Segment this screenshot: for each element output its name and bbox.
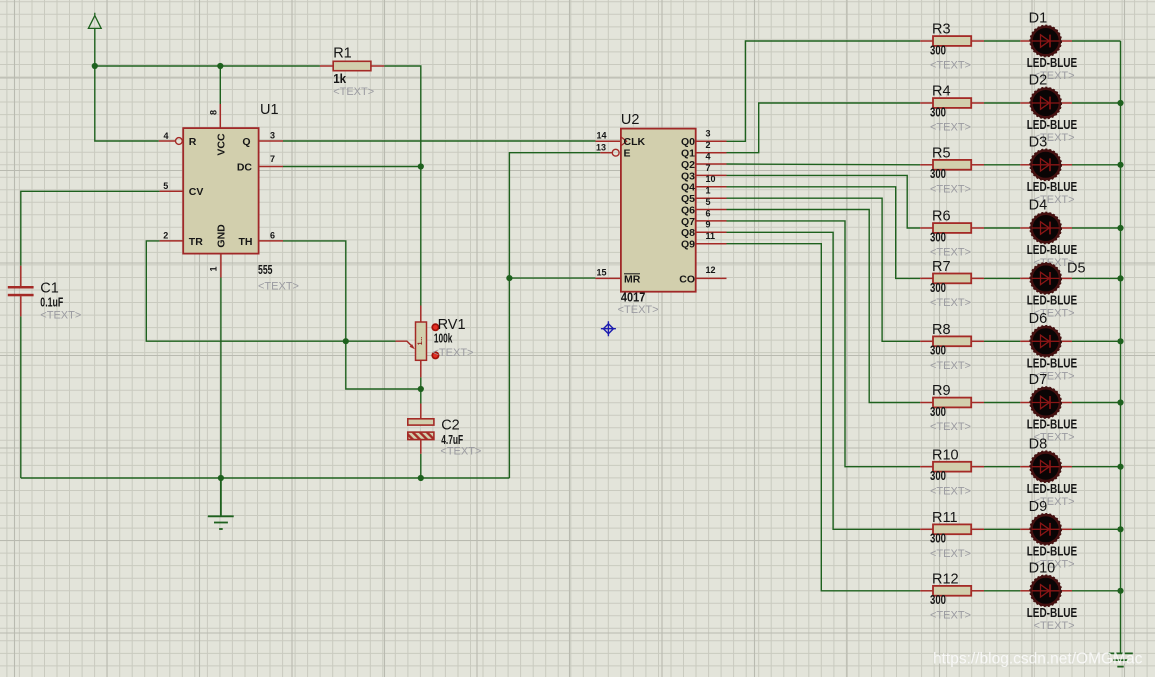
node rail junction D4 xyxy=(1117,225,1123,231)
svg-text:12: 12 xyxy=(706,265,716,275)
U1 pin numbers xyxy=(163,110,275,272)
LED D7 cathode stub xyxy=(1060,402,1072,404)
svg-text:<TEXT>: <TEXT> xyxy=(618,304,659,316)
svg-text:GND: GND xyxy=(215,224,227,248)
resistor R11 left stub xyxy=(920,528,933,530)
svg-text:<TEXT>: <TEXT> xyxy=(930,548,971,560)
svg-text:<TEXT>: <TEXT> xyxy=(40,310,81,322)
svg-text:5: 5 xyxy=(706,197,711,207)
wire Q6 to R9 xyxy=(727,210,921,403)
svg-text:Q4: Q4 xyxy=(681,182,695,194)
svg-text:CLK: CLK xyxy=(624,136,646,148)
node RV1 bottom junction xyxy=(418,386,424,392)
svg-text:D6: D6 xyxy=(1029,311,1048,327)
svg-text:LED-BLUE: LED-BLUE xyxy=(1027,418,1078,432)
resistor R10 left stub xyxy=(920,466,933,468)
svg-text:<TEXT>: <TEXT> xyxy=(930,60,971,72)
resistor R8 body xyxy=(933,336,971,346)
svg-text:Q3: Q3 xyxy=(681,170,695,182)
U1 pin 7 stub xyxy=(259,166,283,168)
svg-text:U2: U2 xyxy=(621,112,640,128)
node DC node junction xyxy=(418,163,424,169)
resistor R12 left stub xyxy=(920,590,933,592)
wire U2 E and MR to ground rail xyxy=(509,153,600,478)
capacitor C2 bottom lead xyxy=(420,440,422,454)
wire D2 cathode to rail xyxy=(1072,102,1121,104)
svg-text:300: 300 xyxy=(930,593,946,607)
svg-text:D1: D1 xyxy=(1029,11,1048,27)
capacitor C2 top plate xyxy=(408,419,434,425)
LED D1 cathode stub xyxy=(1060,40,1072,42)
svg-text:CO: CO xyxy=(679,273,695,285)
svg-text:Q8: Q8 xyxy=(681,227,695,239)
svg-text:<TEXT>: <TEXT> xyxy=(433,347,474,359)
LED D5 anode stub xyxy=(1020,277,1031,279)
LED D9 cathode stub xyxy=(1060,528,1072,530)
svg-text:Q2: Q2 xyxy=(681,159,695,171)
svg-text:Q7: Q7 xyxy=(681,216,695,228)
svg-text:LED-BLUE: LED-BLUE xyxy=(1027,243,1078,257)
wire Q3 to R6 xyxy=(727,175,921,228)
svg-text:7: 7 xyxy=(270,154,275,164)
LED D2 anode stub xyxy=(1020,102,1031,104)
resistor R11 body xyxy=(933,524,971,534)
LED D8 cathode stub xyxy=(1060,466,1072,468)
U2 E pin bubble xyxy=(612,149,619,156)
U1 pin 8 stub xyxy=(219,104,221,128)
capacitor C1 bottom lead xyxy=(20,296,22,316)
wire U1 TR loop xyxy=(146,241,345,341)
capacitor C2 bottom plate hatched xyxy=(408,432,434,440)
U1 pin 4 bubble xyxy=(176,138,183,145)
wire D7 cathode to rail xyxy=(1072,402,1121,404)
node VCC-reset junction xyxy=(92,63,98,69)
svg-text:10: 10 xyxy=(706,174,716,184)
U2 E pin 13 stub xyxy=(600,152,612,154)
svg-text:2: 2 xyxy=(163,231,168,241)
U1 pin labels inside xyxy=(189,133,253,248)
svg-text:<TEXT>: <TEXT> xyxy=(1034,620,1075,632)
resistor R7 right stub xyxy=(971,277,984,279)
svg-text:E: E xyxy=(624,148,631,160)
wire D1 cathode to rail xyxy=(1072,40,1121,42)
U2 CLK chevron xyxy=(621,137,627,146)
resistor R5 right stub xyxy=(971,164,984,166)
svg-text:R7: R7 xyxy=(932,259,951,275)
wire Q4 to R7 xyxy=(727,187,921,279)
potentiometer RV1 top lead xyxy=(420,306,422,323)
svg-text:1...: 1... xyxy=(418,337,424,346)
svg-text:C1: C1 xyxy=(40,281,59,297)
LED D4 anode stub xyxy=(1020,227,1031,229)
node U1 GND ground junction xyxy=(218,475,224,481)
potentiometer RV1 bottom lead xyxy=(420,360,422,377)
resistor R4 right stub xyxy=(971,102,984,104)
svg-text:R1: R1 xyxy=(333,46,352,62)
wire R6 to D4 xyxy=(984,227,1020,229)
svg-text:7: 7 xyxy=(706,163,711,173)
svg-text:D4: D4 xyxy=(1029,198,1048,214)
LED D4 cathode stub xyxy=(1060,227,1072,229)
svg-text:300: 300 xyxy=(930,43,946,57)
U2 Q8 pin stub xyxy=(696,231,727,233)
wire R3 to D1 xyxy=(984,40,1020,42)
U1 pin 3 stub xyxy=(259,140,283,142)
wire VCC drop to U1 pin 8 xyxy=(219,66,221,104)
svg-text:R10: R10 xyxy=(932,447,959,463)
svg-text:LED-BLUE: LED-BLUE xyxy=(1027,545,1078,559)
svg-text:<TEXT>: <TEXT> xyxy=(930,485,971,497)
svg-text:DC: DC xyxy=(237,161,253,173)
LED D1 xyxy=(1030,26,1061,57)
node rail junction D8 xyxy=(1117,464,1123,470)
LED D9 anode stub xyxy=(1020,528,1031,530)
wire R12 to D10 xyxy=(984,590,1020,592)
svg-text:1: 1 xyxy=(706,186,711,196)
wire power drop to VCC rail xyxy=(94,28,96,66)
svg-text:555: 555 xyxy=(258,263,273,277)
U2 pin labels inside xyxy=(624,136,696,285)
resistor R6 right stub xyxy=(971,227,984,229)
U1 pin 4 stub xyxy=(159,140,176,142)
svg-text:1k: 1k xyxy=(333,72,346,86)
svg-text:<TEXT>: <TEXT> xyxy=(930,247,971,259)
svg-text:13: 13 xyxy=(596,143,606,153)
LED D9 xyxy=(1030,514,1061,545)
resistor R4 left stub xyxy=(920,102,933,104)
svg-text:TR: TR xyxy=(189,236,203,248)
capacitor C1 top lead xyxy=(20,266,22,287)
svg-text:8: 8 xyxy=(209,110,219,115)
svg-text:LED-BLUE: LED-BLUE xyxy=(1027,606,1078,620)
svg-text:LED-BLUE: LED-BLUE xyxy=(1027,482,1078,496)
U1 pin 5 stub xyxy=(160,190,184,192)
U2 Q6 pin stub xyxy=(696,209,727,211)
resistor R3 right stub xyxy=(971,40,984,42)
svg-text:<TEXT>: <TEXT> xyxy=(930,610,971,622)
svg-text:D10: D10 xyxy=(1029,560,1056,576)
wire D5 cathode to rail xyxy=(1072,277,1121,279)
wire U1 TH down xyxy=(283,241,346,341)
svg-text:Q5: Q5 xyxy=(681,193,695,205)
svg-text:6: 6 xyxy=(706,208,711,218)
cursor crosshair marker xyxy=(601,321,616,336)
svg-text:LED-BLUE: LED-BLUE xyxy=(1027,180,1078,194)
U2 Q5 pin stub xyxy=(696,197,727,199)
wire U2 MR branch xyxy=(509,277,595,279)
capacitor C1 plates xyxy=(8,286,34,296)
svg-text:C2: C2 xyxy=(441,418,460,434)
resistor R5 body xyxy=(933,160,971,170)
wire U1 GND pin to ground xyxy=(220,278,222,479)
LED D2 xyxy=(1030,88,1061,119)
LED D8 anode stub xyxy=(1020,466,1031,468)
wire C2 bottom to ground rail xyxy=(420,454,422,478)
resistor R10 body xyxy=(933,462,971,472)
svg-text:<TEXT>: <TEXT> xyxy=(333,86,374,98)
LED D6 anode stub xyxy=(1020,340,1031,342)
RV1 wiper arrow xyxy=(396,341,414,347)
resistor R8 left stub xyxy=(920,340,933,342)
wire Q7 to R10 xyxy=(727,221,921,467)
resistor R9 left stub xyxy=(920,402,933,404)
U2 Q3 pin stub xyxy=(696,174,727,176)
svg-text:11: 11 xyxy=(706,231,716,241)
U2 CO pin 12 stub xyxy=(696,277,727,279)
resistor R7 body xyxy=(933,274,971,284)
svg-text:300: 300 xyxy=(930,532,946,546)
LED D1 anode stub xyxy=(1020,40,1031,42)
LED D5 xyxy=(1030,263,1061,294)
svg-text:<TEXT>: <TEXT> xyxy=(930,421,971,433)
svg-text:R5: R5 xyxy=(932,146,951,162)
LED D3 xyxy=(1030,149,1061,180)
wire R7 to D5 xyxy=(984,277,1020,279)
wire U1 CV to C1 xyxy=(21,191,160,265)
wire D10 cathode to rail xyxy=(1072,590,1121,592)
wire D3 cathode to rail xyxy=(1072,164,1121,166)
svg-text:15: 15 xyxy=(597,268,607,278)
resistor R9 right stub xyxy=(971,402,984,404)
op-amp U1 555 timer body xyxy=(183,128,258,254)
LED D8 xyxy=(1030,451,1061,482)
wire U1 Q to U2 CLK xyxy=(283,140,596,142)
LED D7 anode stub xyxy=(1020,402,1031,404)
svg-text:5: 5 xyxy=(163,181,168,191)
svg-text:R9: R9 xyxy=(932,383,951,399)
svg-text:LED-BLUE: LED-BLUE xyxy=(1027,118,1078,132)
resistor R8 right stub xyxy=(971,340,984,342)
wire R11 to D9 xyxy=(984,528,1020,530)
LED D10 anode stub xyxy=(1020,590,1031,592)
capacitor C2 top lead xyxy=(420,404,422,419)
wire R9 to D7 xyxy=(984,402,1020,404)
ground symbol left xyxy=(208,478,234,529)
svg-text:D2: D2 xyxy=(1029,73,1048,89)
wire U1 DC to node xyxy=(283,166,421,168)
wire Q8 to R11 xyxy=(727,232,921,529)
wire Q9 to R12 xyxy=(727,244,921,591)
svg-text:https://blog.csdn.net/OMGMac: https://blog.csdn.net/OMGMac xyxy=(933,651,1143,668)
node rail junction D5 xyxy=(1117,275,1123,281)
svg-text:D5: D5 xyxy=(1067,260,1086,276)
wire ground rail xyxy=(21,477,510,479)
svg-text:R4: R4 xyxy=(932,84,951,100)
svg-text:3: 3 xyxy=(706,129,711,139)
svg-text:300: 300 xyxy=(930,230,946,244)
svg-text:<TEXT>: <TEXT> xyxy=(930,184,971,196)
resistor R6 left stub xyxy=(920,227,933,229)
svg-text:LED-BLUE: LED-BLUE xyxy=(1027,357,1078,371)
U2 Q7 pin stub xyxy=(696,220,727,222)
LED D3 cathode stub xyxy=(1060,164,1072,166)
power VCC arrow symbol xyxy=(88,13,101,29)
U1 pin 1 stub xyxy=(220,254,222,278)
wire R5 to D3 xyxy=(984,164,1020,166)
wire VCC to U1 reset pin branch xyxy=(95,66,159,141)
resistor R6 body xyxy=(933,223,971,233)
svg-text:D8: D8 xyxy=(1029,436,1048,452)
U2 MR pin 15 stub xyxy=(596,277,621,279)
svg-text:CV: CV xyxy=(189,186,204,198)
wire D6 cathode to rail xyxy=(1072,340,1121,342)
svg-text:300: 300 xyxy=(930,167,946,181)
IC U2 4017 body xyxy=(621,129,696,292)
svg-text:0.1uF: 0.1uF xyxy=(40,295,63,309)
svg-text:<TEXT>: <TEXT> xyxy=(440,446,481,458)
wire R8 to D6 xyxy=(984,340,1020,342)
wire Q1 to R4 xyxy=(727,103,921,153)
U2 pin numbers xyxy=(596,129,716,278)
LED D10 cathode stub xyxy=(1060,590,1072,592)
svg-text:R: R xyxy=(189,136,197,148)
node rail junction D7 xyxy=(1117,399,1123,405)
resistor R12 right stub xyxy=(971,590,984,592)
svg-text:U1: U1 xyxy=(260,102,279,118)
resistor R7 left stub xyxy=(920,277,933,279)
LED D3 anode stub xyxy=(1020,164,1031,166)
wire Q0 to R3 xyxy=(727,41,921,141)
wire node to RV1 bottom xyxy=(346,341,421,389)
wire Q2 to R5 xyxy=(727,163,921,166)
svg-text:3: 3 xyxy=(270,131,275,141)
ground symbol right xyxy=(1108,653,1133,666)
svg-text:300: 300 xyxy=(930,105,946,119)
svg-text:6: 6 xyxy=(270,231,275,241)
wire R1 right to vertical xyxy=(384,66,421,306)
svg-text:1: 1 xyxy=(209,266,219,271)
wire R10 to D8 xyxy=(984,466,1020,468)
svg-text:MR: MR xyxy=(624,273,641,285)
svg-text:Q0: Q0 xyxy=(681,136,695,148)
svg-text:Q9: Q9 xyxy=(681,239,695,251)
svg-text:R3: R3 xyxy=(932,22,951,38)
svg-text:D9: D9 xyxy=(1029,499,1048,515)
LED D2 cathode stub xyxy=(1060,102,1072,104)
U2 Q2 pin stub xyxy=(696,163,727,165)
resistor R1 body xyxy=(333,61,371,70)
LED D6 xyxy=(1030,326,1061,357)
svg-text:<TEXT>: <TEXT> xyxy=(930,297,971,309)
potentiometer RV1 body xyxy=(416,322,427,360)
svg-text:300: 300 xyxy=(930,405,946,419)
svg-text:LED-BLUE: LED-BLUE xyxy=(1027,294,1078,308)
U2 CLK pin 14 stub xyxy=(596,140,621,142)
resistor R4 body xyxy=(933,98,971,108)
node VCC pin8 junction xyxy=(217,63,223,69)
svg-text:Q6: Q6 xyxy=(681,204,695,216)
resistor R11 right stub xyxy=(971,528,984,530)
svg-text:RV1: RV1 xyxy=(438,317,466,333)
resistor R12 body xyxy=(933,586,971,596)
svg-text:R6: R6 xyxy=(932,209,951,225)
resistor R3 body xyxy=(933,36,971,46)
LED D10 xyxy=(1030,575,1061,606)
resistor R1 right stub xyxy=(371,65,384,67)
U1 pin 2 stub xyxy=(160,240,184,242)
node rail junction D9 xyxy=(1117,526,1123,532)
svg-text:4017: 4017 xyxy=(621,291,645,305)
wire wiper stub xyxy=(346,340,396,342)
svg-text:300: 300 xyxy=(930,469,946,483)
svg-text:300: 300 xyxy=(930,344,946,358)
svg-text:<TEXT>: <TEXT> xyxy=(930,360,971,372)
svg-text:Q: Q xyxy=(242,136,250,148)
svg-text:R11: R11 xyxy=(932,510,958,526)
U2 Q1 pin stub xyxy=(696,152,727,154)
svg-text:R8: R8 xyxy=(932,322,951,338)
svg-text:Q1: Q1 xyxy=(681,148,695,160)
U2 Q9 pin stub xyxy=(696,243,727,245)
node rail junction D10 xyxy=(1117,588,1123,594)
svg-text:300: 300 xyxy=(930,281,946,295)
resistor R1 left stub xyxy=(320,65,333,67)
LED D7 xyxy=(1030,387,1061,418)
svg-text:VCC: VCC xyxy=(215,133,227,156)
U2 Q4 pin stub xyxy=(696,186,727,188)
svg-text:R12: R12 xyxy=(932,572,959,588)
svg-text:9: 9 xyxy=(706,220,711,230)
wire D9 cathode to rail xyxy=(1072,528,1121,530)
resistor R10 right stub xyxy=(971,466,984,468)
wire D4 cathode to rail xyxy=(1072,227,1121,229)
wire R4 to D2 xyxy=(984,102,1020,104)
svg-text:100k: 100k xyxy=(434,332,453,346)
svg-text:D3: D3 xyxy=(1029,134,1048,150)
resistor R3 left stub xyxy=(920,40,933,42)
wire RV1 bottom to C2 xyxy=(420,377,422,404)
node TR-TH-wiper junction xyxy=(343,338,349,344)
LED D6 cathode stub xyxy=(1060,340,1072,342)
LED D5 cathode stub xyxy=(1060,277,1072,279)
resistor R9 body xyxy=(933,398,971,408)
svg-text:<TEXT>: <TEXT> xyxy=(930,122,971,134)
U2 Q0 pin stub xyxy=(696,140,727,142)
wire LED cathode rail to ground xyxy=(1120,41,1122,653)
node C2 ground junction xyxy=(418,475,424,481)
wire Q5 to R8 xyxy=(727,198,921,341)
svg-text:14: 14 xyxy=(597,131,607,141)
svg-text:TH: TH xyxy=(239,236,253,248)
svg-text:4: 4 xyxy=(163,131,168,141)
wire D8 cathode to rail xyxy=(1072,466,1121,468)
U1 pin 6 stub xyxy=(259,240,283,242)
node rail junction D3 xyxy=(1117,162,1123,168)
LED D4 xyxy=(1030,213,1061,244)
wire VCC top rail xyxy=(95,65,320,67)
node E-MR junction xyxy=(506,275,512,281)
RV1 adjust indicator dots xyxy=(431,323,439,359)
svg-text:2: 2 xyxy=(706,140,711,150)
wire C1 bottom to ground rail xyxy=(20,316,22,478)
svg-text:LED-BLUE: LED-BLUE xyxy=(1027,56,1078,70)
svg-text:4: 4 xyxy=(706,151,711,161)
resistor R5 left stub xyxy=(920,164,933,166)
node rail junction D2 xyxy=(1117,100,1123,106)
svg-text:D7: D7 xyxy=(1029,372,1048,388)
svg-text:<TEXT>: <TEXT> xyxy=(258,281,299,293)
node rail junction D6 xyxy=(1117,338,1123,344)
